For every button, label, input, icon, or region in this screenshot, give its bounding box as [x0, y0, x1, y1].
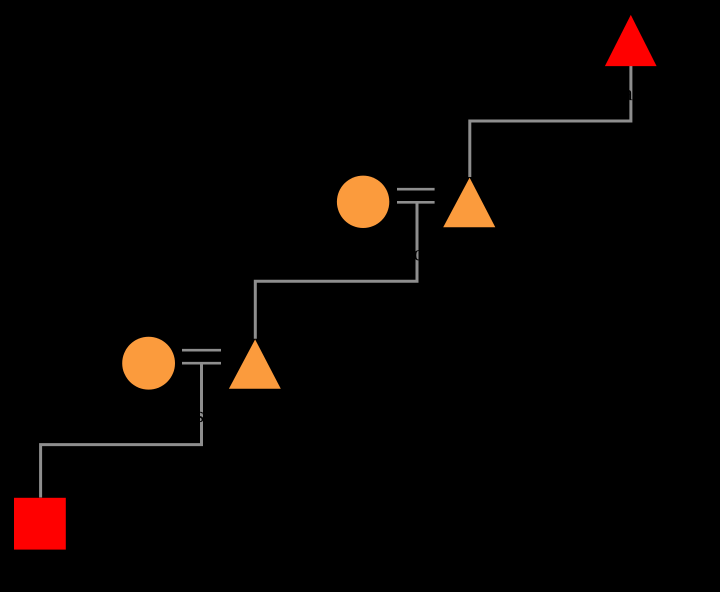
wire: edge from mid mating line down-left to low orange triangle — [255, 202, 417, 338]
node: orange circle (middle) — [337, 176, 389, 228]
node: orange circle (lower) — [122, 337, 175, 390]
label s (edge label, black on black, overlaps wire) — [197, 412, 204, 422]
node: red square (bottom left) — [14, 498, 66, 550]
wire: edge from red triangle down-left to mid orange triangle — [470, 66, 631, 177]
mating double-line (=) between mid circle and mid triangle, upper bar — [397, 188, 435, 191]
node: orange triangle (lower) — [229, 339, 281, 388]
node: red triangle (top right) — [605, 15, 657, 66]
mating double-line (=) between low circle and low triangle, lower bar — [182, 362, 221, 365]
mating double-line (=) between mid circle and mid triangle, lower bar — [397, 201, 435, 204]
label a (edge label, black on black, overlaps wire) — [624, 90, 632, 100]
wire: edge from low mating line down-left to red square — [41, 363, 202, 497]
mating double-line (=) between low circle and low triangle, upper bar — [182, 349, 221, 352]
label b (edge label, black on black, overlaps wire) — [414, 250, 423, 260]
node: orange triangle (middle) — [443, 178, 495, 228]
